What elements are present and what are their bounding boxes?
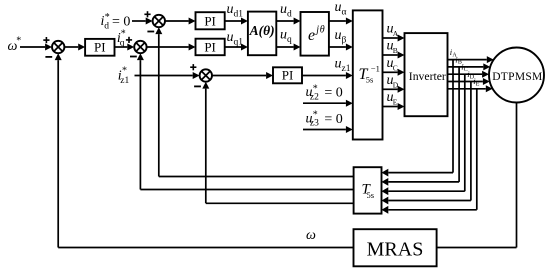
svg-text:DTPMSM: DTPMSM (492, 71, 542, 83)
svg-text:= 0: = 0 (112, 14, 130, 29)
svg-text:A(θ): A(θ) (249, 23, 275, 38)
label u_C (phase voltage) (387, 56, 398, 73)
wire: reference u_z3*=0 into T5s^-1 (303, 126, 353, 133)
wire: i_E measurement tap down into transform T5s (382, 89, 477, 214)
svg-text:jθ: jθ (314, 25, 325, 36)
label u_A (phase voltage) (387, 22, 399, 39)
plus sign at S4 (190, 64, 196, 70)
wire: u_q from A(θ) to rotation block e^jθ (276, 44, 300, 51)
wire: i_z1 feedback from T5s up into summing junction S4 (202, 82, 353, 204)
wire: phase current i_C line from Inverter to DTPMSM (448, 71, 490, 78)
svg-text:= 0: = 0 (324, 86, 342, 101)
minus sign at S4 (194, 85, 201, 87)
wire: i_D measurement tap down into transform T5s (382, 82, 471, 205)
DTPMSM motor circle (489, 48, 544, 103)
svg-text:z1: z1 (120, 76, 129, 86)
wire: i_A measurement tap down into transform T5s (382, 60, 454, 177)
label u_β (335, 28, 347, 45)
wire: phase current i_A line from Inverter to DTPMSM (448, 56, 494, 63)
wire: u_d1 from d-axis PI to decoupling block A(θ) (225, 18, 248, 25)
PI controller block (z1-axis) (273, 67, 302, 83)
svg-text:*: * (16, 36, 21, 47)
svg-text:*: * (313, 84, 318, 95)
wire: estimated speed ω from MRAS back to summing junction S1 (55, 53, 354, 247)
svg-text:ω: ω (306, 228, 316, 243)
wire: i_C measurement tap down into transform T5s (382, 74, 465, 195)
minus sign at S1 (45, 56, 52, 58)
svg-text:e: e (308, 27, 315, 44)
label u_α (335, 0, 347, 17)
svg-text:*: * (313, 110, 318, 121)
summing junction S3 (d-axis current error) (153, 15, 165, 27)
label i_C (phase current) (461, 62, 468, 73)
svg-text:u: u (335, 57, 342, 72)
label i_A (phase current) (450, 47, 458, 58)
PI controller block (d-axis) (196, 12, 225, 29)
svg-text:D: D (393, 80, 399, 89)
label ω (estimated speed) (306, 228, 316, 243)
plus sign at S2 (126, 37, 132, 43)
label u_D (phase voltage) (387, 73, 399, 90)
wire: speed reference ω* into summing junction S1 (20, 44, 52, 51)
wire: phase current i_E line from Inverter to DTPMSM (448, 85, 493, 92)
wire: u_z1 from z1 PI to inverse transform T5s^-1 (302, 72, 353, 79)
svg-text:B: B (393, 46, 398, 55)
svg-text:β: β (342, 35, 347, 45)
label u_d1 (227, 2, 244, 19)
svg-text:*: * (105, 12, 110, 23)
wire: S1 output to speed PI controller (64, 44, 85, 51)
MRAS block (354, 229, 437, 266)
wire: z1 reference i_z1* into summing junction S4 (135, 72, 200, 79)
label u_q (280, 28, 292, 45)
wire: i_d feedback from T5s up into summing junction S3 (155, 27, 353, 176)
summing junction S1 (speed error) (52, 41, 64, 53)
decoupling block A(θ) (248, 12, 276, 56)
label i_B (phase current) (455, 54, 462, 65)
label u_z2* = 0 (306, 84, 343, 103)
svg-text:u: u (227, 2, 234, 17)
svg-text:d: d (287, 9, 292, 19)
label i_E (phase current) (473, 76, 480, 87)
svg-text:u: u (280, 28, 287, 43)
label i_z1* (z1 reference) (118, 66, 130, 87)
label ω* (speed reference) (8, 36, 22, 55)
label i_q* (q-axis reference) (117, 28, 126, 48)
wire: phase voltage u_B from T5s^-1 to Inverter (383, 52, 405, 59)
wire: phase current i_B line from Inverter to DTPMSM (448, 63, 491, 70)
svg-text:z1: z1 (342, 64, 351, 74)
svg-text:PI: PI (94, 40, 106, 55)
label i_D (phase current) (467, 69, 475, 80)
wire: phase voltage u_C from T5s^-1 to Inverter (383, 69, 405, 76)
svg-text:u: u (335, 0, 342, 15)
label i_d* = 0 (d-axis reference) (101, 12, 131, 32)
svg-text:Inverter: Inverter (409, 70, 446, 83)
summing junction S2 (q-axis current error) (134, 41, 146, 53)
wire: reference u_z2*=0 into T5s^-1 (303, 100, 353, 107)
svg-text:q1: q1 (234, 37, 244, 47)
minus sign at S3 (147, 31, 154, 33)
label u_B (phase voltage) (387, 39, 398, 56)
summing junction S4 (z1-axis current error) (200, 69, 212, 81)
svg-text:−1: −1 (371, 63, 380, 73)
svg-text:C: C (393, 63, 398, 72)
wire: d-axis reference i_d*=0 into summing junction S3 (132, 18, 153, 25)
svg-text:α: α (342, 7, 347, 17)
wire: S3 output to d-axis PI controller (165, 18, 196, 25)
svg-text:A: A (393, 29, 399, 38)
svg-text:q: q (287, 35, 292, 45)
plus sign at S3 (144, 11, 150, 17)
svg-text:PI: PI (204, 39, 216, 54)
svg-text:q: q (120, 39, 125, 49)
rotation block e^jθ (301, 12, 329, 56)
label u_q1 (227, 30, 244, 47)
label u_E (phase voltage) (387, 90, 398, 107)
wire: u_q1 from q-axis PI to decoupling block A(θ) (225, 44, 248, 51)
wire: u_d from A(θ) to rotation block e^jθ (276, 18, 300, 25)
wire: phase current i_D line from Inverter to DTPMSM (448, 78, 490, 85)
svg-text:u: u (280, 2, 287, 17)
svg-text:*: * (121, 28, 126, 39)
Inverter block (405, 33, 448, 116)
svg-text:u: u (335, 28, 342, 43)
wire: phase voltage u_D from T5s^-1 to Inverter (383, 86, 405, 93)
PI controller block (speed loop) (85, 39, 114, 56)
svg-text:E: E (393, 98, 398, 107)
wire: u_β from e^jθ to inverse transform T5s^-1 (329, 44, 353, 51)
transform block T5s (354, 167, 382, 213)
PI controller block (q-axis) (196, 39, 225, 56)
svg-text:PI: PI (282, 68, 294, 83)
svg-text:*: * (122, 66, 127, 77)
wire: S2 output to q-axis PI controller (147, 44, 196, 51)
wire: i_q feedback from T5s up into summing junction S2 (137, 53, 354, 189)
svg-text:MRAS: MRAS (367, 239, 424, 261)
wire: rotor speed from DTPMSM down into MRAS (437, 103, 517, 248)
wire: S4 output to z1-axis PI controller (212, 72, 273, 79)
svg-text:PI: PI (204, 13, 216, 28)
svg-text:d1: d1 (234, 9, 244, 19)
plus sign at S1 (43, 37, 49, 43)
svg-text:= 0: = 0 (324, 112, 342, 127)
wire: phase voltage u_A from T5s^-1 to Inverter (383, 35, 405, 42)
label u_z3* = 0 (306, 110, 343, 129)
label u_z1 (335, 57, 351, 74)
svg-text:5s: 5s (367, 190, 375, 200)
svg-text:E: E (476, 82, 480, 88)
svg-text:5s: 5s (366, 75, 374, 85)
wire: i_B measurement tap down into transform T5s (382, 67, 460, 186)
inverse transform block T5s^-1 (353, 10, 383, 139)
label u_d (280, 2, 292, 19)
wire: phase voltage u_E from T5s^-1 to Inverter (383, 103, 405, 110)
svg-text:u: u (227, 30, 234, 45)
minus sign at S2 (130, 56, 137, 58)
wire: speed PI output i_q* to summing junction S2 (115, 44, 135, 51)
wire: u_α from e^jθ to inverse transform T5s^-1 (329, 18, 353, 25)
